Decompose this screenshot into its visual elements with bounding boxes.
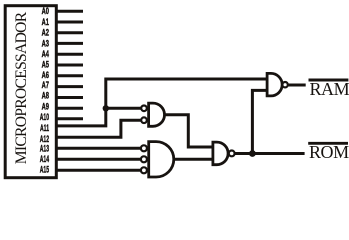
gate U2 input 1 inversion bubble: [141, 106, 147, 112]
wire A5 stub: [56, 64, 83, 67]
svg-text:A2: A2: [42, 27, 49, 38]
wire A9 stub: [56, 107, 83, 110]
svg-text:ROM: ROM: [309, 142, 349, 162]
wire A2 stub: [56, 31, 83, 34]
wire A13 to gate U4 input 1: [56, 147, 141, 150]
microprocessor box U1: [5, 6, 56, 178]
node junction dot at ROM branch: [249, 150, 256, 157]
svg-text:A11: A11: [40, 122, 49, 133]
gate U4 AND body (3-input with inverted inputs): [149, 142, 174, 177]
gate U3 output bubble: [282, 82, 287, 87]
wire A12 to gate U2 input 2: [56, 120, 141, 137]
op: gate U2 output wire down to gate U5 input 1: [165, 115, 213, 147]
wire A1 stub: [56, 21, 83, 24]
net label ROM overline: [308, 142, 348, 145]
gate U4 input 2 inversion bubble: [141, 156, 147, 162]
gate U2 AND body (2-input with inverted inputs): [149, 103, 165, 126]
wire A8 stub: [56, 96, 83, 99]
wire ROM node up to gate U3 input 2: [252, 90, 266, 153]
wire gate U3 output to RAM label: [288, 84, 306, 87]
svg-text:A9: A9: [42, 101, 49, 112]
wire A10 stub: [56, 117, 83, 120]
gate U4 input 3 inversion bubble: [141, 167, 147, 173]
svg-text:A0: A0: [42, 6, 49, 17]
wire A11 to gate U3 input 1 (via top run): [56, 79, 266, 126]
svg-text:A14: A14: [40, 153, 50, 164]
svg-text:A3: A3: [42, 38, 49, 49]
svg-text:A13: A13: [40, 143, 49, 154]
wire gate U4 output to gate U5 input 2: [174, 158, 212, 161]
gate U5 output bubble: [229, 151, 235, 157]
svg-text:A6: A6: [42, 69, 49, 80]
wire A15 to gate U4 input 3: [56, 169, 141, 172]
gate U5 NAND body: [213, 142, 228, 165]
wire gate U5 output to ROM node: [235, 152, 305, 155]
wire A7 stub: [56, 85, 83, 88]
gate U4 input 1 inversion bubble: [141, 145, 147, 151]
wire A6 stub: [56, 74, 83, 77]
gate U3 NAND body: [267, 73, 282, 96]
node junction dot on A11 riser: [103, 105, 109, 111]
svg-text:MICROPROCESSADOR: MICROPROCESSADOR: [13, 11, 30, 164]
gate U2 input 2 inversion bubble: [141, 117, 147, 123]
svg-text:RAM: RAM: [310, 79, 349, 99]
svg-text:A1: A1: [42, 17, 49, 28]
wire A14 to gate U4 input 2: [56, 158, 141, 161]
svg-text:A8: A8: [42, 90, 49, 101]
pin label A0: [40, 6, 50, 175]
wire branch from A11 riser to gate U2 input 1: [106, 107, 141, 110]
wire A4 stub: [56, 53, 83, 56]
wire A3 stub: [56, 42, 83, 45]
wire A0 stub: [56, 10, 83, 13]
svg-text:A7: A7: [42, 80, 49, 91]
svg-text:A4: A4: [42, 49, 50, 60]
net label RAM overline: [309, 79, 349, 82]
svg-text:A15: A15: [40, 164, 49, 175]
svg-text:A10: A10: [40, 112, 49, 123]
